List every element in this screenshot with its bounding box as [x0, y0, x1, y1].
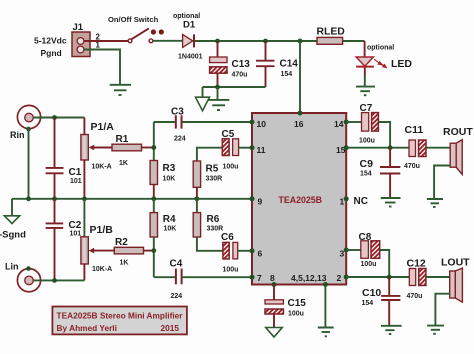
svg-text:R1: R1	[116, 134, 129, 145]
svg-text:6: 6	[258, 249, 263, 259]
svg-text:9: 9	[258, 197, 263, 207]
svg-text:ROUT: ROUT	[443, 126, 473, 138]
svg-text:-Sgnd: -Sgnd	[0, 230, 26, 241]
svg-text:C6: C6	[221, 232, 234, 243]
svg-text:Lin: Lin	[5, 262, 19, 272]
svg-text:1: 1	[340, 197, 345, 207]
svg-text:470u: 470u	[404, 163, 420, 170]
svg-text:C2: C2	[69, 220, 82, 231]
svg-text:14: 14	[334, 119, 344, 129]
svg-text:R6: R6	[207, 214, 220, 225]
svg-text:C9: C9	[360, 158, 374, 170]
svg-text:7: 7	[257, 273, 262, 283]
svg-text:10K-A: 10K-A	[92, 164, 112, 171]
svg-text:C11: C11	[405, 124, 424, 136]
svg-text:C14: C14	[280, 59, 299, 70]
svg-text:10: 10	[257, 119, 267, 129]
svg-text:C4: C4	[170, 259, 183, 270]
svg-text:C10: C10	[362, 287, 381, 299]
svg-text:10K-A: 10K-A	[92, 266, 112, 273]
svg-text:8: 8	[270, 273, 275, 283]
svg-text:16: 16	[294, 119, 304, 129]
svg-text:2015: 2015	[161, 323, 180, 333]
svg-text:On/Off Switch: On/Off Switch	[108, 15, 159, 24]
svg-text:10K: 10K	[163, 176, 176, 183]
svg-text:RLED: RLED	[317, 27, 346, 38]
svg-text:R2: R2	[115, 237, 128, 248]
svg-text:100u: 100u	[223, 164, 239, 171]
svg-text:101: 101	[70, 231, 82, 238]
svg-text:TEA2025B Stereo Mini Amplifier: TEA2025B Stereo Mini Amplifier	[57, 311, 184, 321]
svg-text:By Ahmed Yerli: By Ahmed Yerli	[57, 323, 117, 333]
svg-text:101: 101	[70, 178, 82, 185]
svg-text:TEA2025B: TEA2025B	[279, 195, 323, 205]
svg-text:1K: 1K	[120, 260, 129, 267]
svg-text:J1: J1	[73, 22, 84, 33]
svg-text:C7: C7	[360, 103, 373, 114]
svg-text:330R: 330R	[206, 176, 223, 183]
svg-text:C8: C8	[359, 232, 372, 243]
svg-text:1N4001: 1N4001	[178, 54, 203, 61]
svg-text:154: 154	[362, 300, 374, 307]
svg-text:P1/B: P1/B	[90, 224, 114, 236]
svg-text:154: 154	[360, 171, 372, 178]
svg-text:4,5,12,13: 4,5,12,13	[291, 273, 327, 283]
svg-text:1K: 1K	[119, 160, 128, 167]
svg-text:LOUT: LOUT	[441, 257, 470, 269]
svg-text:C1: C1	[69, 167, 82, 178]
svg-text:C12: C12	[407, 258, 426, 270]
svg-text:Rin: Rin	[10, 130, 25, 140]
svg-text:optional: optional	[367, 45, 394, 52]
svg-text:R5: R5	[206, 163, 219, 174]
svg-text:10K: 10K	[164, 226, 177, 233]
svg-text:5-12Vdc: 5-12Vdc	[34, 36, 67, 46]
svg-text:11: 11	[257, 145, 266, 155]
svg-text:R3: R3	[163, 163, 176, 174]
svg-text:D1: D1	[183, 20, 196, 31]
svg-text:224: 224	[174, 136, 186, 143]
svg-text:NC: NC	[354, 196, 368, 207]
svg-text:C5: C5	[222, 129, 235, 140]
svg-text:100u: 100u	[288, 311, 304, 318]
svg-text:C3: C3	[171, 107, 184, 118]
svg-text:C13: C13	[232, 59, 251, 70]
svg-text:224: 224	[171, 293, 183, 300]
svg-text:470u: 470u	[407, 293, 423, 300]
svg-text:2: 2	[337, 273, 342, 283]
svg-text:154: 154	[281, 71, 293, 78]
svg-text:100u: 100u	[359, 138, 375, 145]
svg-text:LED: LED	[391, 58, 412, 70]
svg-text:470u: 470u	[232, 72, 248, 79]
svg-text:R4: R4	[163, 214, 176, 225]
svg-text:P1/A: P1/A	[91, 121, 115, 133]
svg-text:Pgnd: Pgnd	[41, 48, 62, 58]
svg-text:100u: 100u	[223, 267, 239, 274]
svg-text:100u: 100u	[361, 261, 377, 268]
svg-text:C15: C15	[288, 298, 307, 309]
